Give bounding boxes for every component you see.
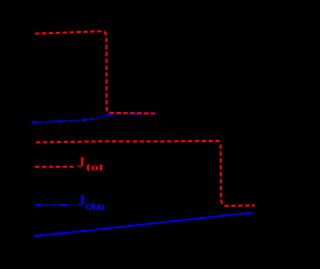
legend red dashed sample [35, 166, 73, 168]
svg-text:Ohm: Ohm [85, 202, 105, 213]
bottom panel: blue dash-dot J_Ohm curve (solid underlay for antialiased look) [34, 213, 254, 236]
bottom panel: blue dash-dot J_Ohm curve [34, 213, 254, 236]
top panel: red dashed J_tot curve with sharp drop [35, 31, 155, 113]
legend blue dash-dot sample [35, 204, 73, 206]
svg-text:tot: tot [86, 162, 105, 174]
top panel: blue dash-dot J_Ohm curve [32, 114, 158, 123]
bottom panel: red dashed J_tot curve with sharp drop [36, 141, 255, 206]
svg-text:J: J [78, 155, 86, 171]
